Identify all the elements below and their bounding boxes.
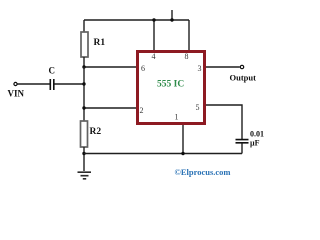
node top rail junction pin4 [152, 18, 155, 21]
resistor R2 [81, 121, 88, 147]
svg-text:µF: µF [250, 139, 260, 148]
svg-text:R2: R2 [90, 127, 102, 137]
wire C2 bottom lead [241, 144, 243, 154]
wire R2 bottom lead [83, 147, 85, 171]
svg-text:R1: R1 [94, 38, 106, 48]
wire R1 top lead [83, 20, 85, 32]
wire pin4 drop [153, 20, 155, 50]
node junction C [82, 82, 85, 85]
resistor R1 [81, 32, 88, 57]
node VIN terminal [14, 82, 17, 85]
wire R1 bottom lead [83, 57, 85, 67]
svg-text:8: 8 [185, 52, 189, 61]
wire C to node [55, 83, 85, 85]
wire top rail [84, 19, 189, 21]
svg-text:5: 5 [196, 103, 200, 112]
svg-text:4: 4 [152, 52, 156, 61]
ground [78, 172, 92, 179]
svg-text:2: 2 [140, 106, 144, 115]
wire pin1 drop [182, 125, 184, 154]
wire pin2 [84, 107, 136, 109]
capacitor C2 0.01uF [236, 140, 249, 143]
wire Vcc stub [171, 10, 173, 20]
svg-text:Output: Output [230, 73, 257, 83]
svg-text:6: 6 [141, 64, 145, 73]
node junction pin1 [181, 152, 184, 155]
wire pin6 [84, 66, 136, 68]
svg-text:1: 1 [175, 113, 179, 122]
svg-text:0.01: 0.01 [250, 130, 264, 139]
node junction bottom rail left [82, 152, 85, 155]
svg-text:VIN: VIN [8, 89, 25, 99]
node top rail junction stub [170, 18, 173, 21]
wire bottom rail [84, 153, 242, 155]
svg-text:555 IC: 555 IC [157, 80, 184, 90]
svg-text:C: C [49, 66, 56, 76]
svg-text:3: 3 [198, 64, 202, 73]
wire pin3 output [206, 66, 240, 68]
node junction pin6 [82, 65, 85, 68]
node junction pin2 [82, 106, 85, 109]
wire pin8 drop [188, 20, 190, 50]
wire pin5 to C2 [206, 105, 242, 139]
wire VIN to C [18, 83, 51, 85]
wire left vertical [83, 67, 85, 121]
op-amp U1 555 IC body [138, 52, 205, 124]
capacitor C [50, 79, 54, 90]
node Output terminal [240, 65, 243, 68]
svg-text:©Elprocus.com: ©Elprocus.com [175, 167, 231, 177]
